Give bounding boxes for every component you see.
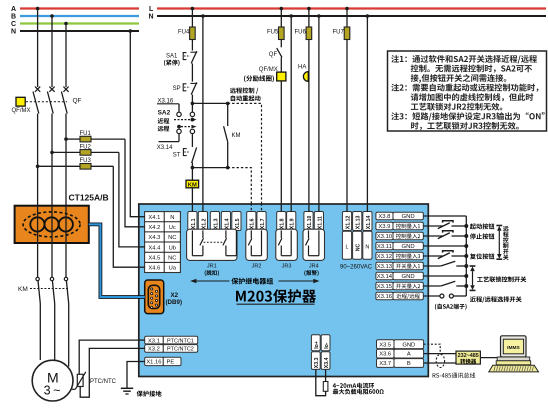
label JR1 [205, 264, 219, 276]
svg-text:NC: NC [168, 256, 176, 262]
wire X3.8 GND rail [423, 216, 466, 296]
node phase A tap [36, 7, 40, 11]
label KM [18, 286, 28, 293]
svg-text:GND: GND [402, 244, 415, 250]
label shunt coil [244, 75, 274, 82]
svg-text:A: A [407, 352, 411, 358]
svg-text:QF/MX: QF/MX [259, 67, 278, 73]
svg-text:GND: GND [402, 274, 415, 280]
svg-text:JR3: JR3 [282, 264, 292, 270]
svg-text:PTC/NTC: PTC/NTC [90, 379, 117, 385]
svg-text:232~485: 232~485 [458, 353, 479, 359]
wire SA2-ST [191, 134, 193, 147]
coil QF/MX (shunt trip) [277, 72, 286, 204]
svg-text:A: A [11, 6, 16, 13]
node L tap x281.3 [280, 7, 284, 11]
label FU7 [333, 30, 345, 36]
title M203 protector [236, 289, 316, 304]
terminal X3.16 [376, 292, 423, 300]
svg-text:KM: KM [188, 182, 197, 188]
svg-text:(DB9): (DB9) [166, 299, 183, 306]
wire X3.2 to sensor [80, 348, 145, 397]
svg-text:X1.10: X1.10 [307, 216, 313, 230]
contactor KM main contacts [36, 277, 69, 366]
terminal X1.6 [247, 212, 256, 231]
svg-text:X1.3: X1.3 [213, 218, 219, 229]
cable CT to X2 (blue) [89, 224, 145, 297]
svg-text:N: N [365, 245, 369, 251]
fuse FU3 [38, 164, 145, 268]
svg-text:KM: KM [18, 286, 28, 293]
node KM aux bottom [226, 166, 230, 170]
wire dashed KM-top to X1.7 [228, 103, 262, 204]
label from SA2 terminal [435, 304, 467, 310]
wire phase B drop [51, 16, 53, 87]
wire PE to ground [127, 362, 145, 389]
wire phase C to CT [65, 114, 67, 207]
svg-text:X3.1: X3.1 [148, 338, 160, 344]
wire dashed GND shield [424, 344, 441, 353]
relay JR3 contacts [276, 229, 298, 260]
label FU3 [80, 158, 92, 164]
label remote control switch (vertical) [503, 226, 509, 260]
svg-text:X4.6: X4.6 [148, 266, 160, 272]
terminal X3.14 [376, 272, 423, 280]
bus C (phase C, green) [20, 22, 139, 24]
label FU4 [178, 30, 190, 36]
svg-text:FU6: FU6 [295, 30, 307, 36]
svg-text:X4.1: X4.1 [148, 215, 160, 221]
svg-text:X3.10: X3.10 [377, 234, 393, 240]
label auto restart [231, 95, 261, 101]
node N tap x367.4 [366, 14, 370, 18]
label CT125A/B [69, 193, 109, 203]
svg-text:X1.4: X1.4 [224, 218, 230, 229]
bus B (phase B, blue) [20, 15, 139, 17]
pushbutton stop (to X3.10) [423, 231, 468, 239]
wire phase B to CT [51, 114, 53, 207]
label RS-485 bus [433, 373, 476, 379]
protector M203 body [139, 204, 429, 377]
svg-text:QF: QF [73, 98, 82, 105]
shunt coil box QF/MX [16, 97, 25, 106]
label HA [298, 65, 306, 71]
label KM aux [232, 133, 241, 139]
bus N (neutral, black) [20, 30, 139, 32]
terminal X1.16 PE [145, 357, 181, 365]
svg-text:X3.13: X3.13 [377, 264, 393, 270]
svg-text:X1.1: X1.1 [191, 218, 197, 229]
pushbutton ST (NO start) [183, 147, 196, 163]
svg-text:X4.5: X4.5 [148, 256, 160, 262]
svg-text:X1.5: X1.5 [235, 218, 241, 229]
svg-text:IMMS: IMMS [507, 345, 520, 351]
svg-text:X3.14: X3.14 [157, 145, 173, 151]
label JR3 [282, 264, 292, 270]
thermistor PTC/NTC [72, 372, 86, 390]
svg-text:X3.16: X3.16 [377, 294, 393, 300]
connector X2 DB9 [145, 280, 164, 314]
fuse FU7 [344, 9, 350, 205]
svg-text:X4.4: X4.4 [148, 245, 161, 251]
terminal X1.3 [210, 212, 219, 231]
dimension remote control switches [496, 226, 502, 260]
label 4-20mA loop [333, 383, 374, 389]
label FU5 [267, 30, 279, 36]
bus N2 (neutral) [157, 15, 546, 17]
wire current loop [316, 369, 326, 395]
svg-text:GND: GND [402, 214, 415, 220]
pushbutton SP (NC stop) [183, 82, 197, 94]
notes box (annotations 1-3) [388, 51, 547, 131]
terminal Io+ [311, 335, 320, 351]
wire X3.14 [157, 134, 179, 152]
svg-text:SA2: SA2 [158, 110, 171, 117]
bell HA [303, 72, 308, 82]
wire X3.14 GND [423, 274, 468, 278]
svg-text:FU7: FU7 [333, 30, 345, 36]
svg-text:JR4: JR4 [309, 264, 319, 270]
svg-text:QF: QF [269, 52, 278, 58]
terminal X3.11 [376, 242, 423, 250]
svg-text:X1.14: X1.14 [366, 216, 372, 230]
bus label A [11, 6, 16, 13]
label QF/MX [12, 108, 31, 114]
svg-text:X1.2: X1.2 [201, 218, 207, 229]
label SA2 option remote [158, 126, 170, 132]
svg-text:X3.8: X3.8 [378, 214, 391, 220]
svg-text:L: L [149, 6, 154, 13]
node FU1 tap [64, 137, 68, 141]
label protection relay group [190, 278, 319, 285]
svg-text:X3.4: X3.4 [324, 357, 330, 368]
switch interlock (to X3.13) [423, 261, 468, 268]
svg-text:GND: GND [402, 342, 415, 348]
label max load [333, 389, 384, 395]
svg-text:B: B [407, 361, 411, 367]
label SA2 option local [158, 118, 170, 124]
dimension process interlock switch [470, 266, 476, 290]
relay JR1 contacts (trip) [187, 229, 237, 260]
terminal X3.2 [145, 345, 198, 353]
label remote control [230, 88, 258, 94]
wire N to X4.1 [130, 31, 144, 217]
terminal X1.7 [257, 212, 266, 231]
svg-text:X3.2: X3.2 [148, 347, 160, 353]
fuse FU2 [52, 150, 145, 247]
node KM branch top [226, 102, 230, 106]
wire stubs into X4/X3 left terminals [138, 217, 145, 362]
label stop button [470, 233, 495, 239]
terminal X3.5 [377, 340, 424, 349]
svg-text:JR2: JR2 [252, 264, 262, 270]
svg-text:SA1: SA1 [166, 54, 178, 60]
terminal X1.9 [287, 212, 296, 231]
svg-text:N: N [170, 215, 174, 221]
selector local/remote (to X3.16) [423, 294, 466, 298]
svg-text:Ub: Ub [169, 245, 176, 251]
svg-text:NC: NC [356, 243, 362, 251]
node FU3 tap [36, 165, 40, 169]
terminal block X4.1-X4.6 [145, 212, 181, 273]
terminal X3.4 [321, 352, 330, 370]
wire N return to X1.2 [202, 16, 204, 205]
svg-text:JR1: JR1 [207, 264, 217, 270]
wire N return to X1.14 [366, 16, 368, 205]
fuse FU1 [66, 136, 145, 227]
shield loop (dashed ellipse) [436, 354, 444, 367]
svg-text:FU2: FU2 [80, 144, 92, 150]
wire ST to node [191, 162, 193, 167]
node KM coil top [191, 166, 195, 170]
svg-text:90~260VAC: 90~260VAC [340, 265, 373, 271]
label X3.16 wire [157, 98, 179, 112]
coil KM [186, 168, 199, 205]
svg-text:PTC/NTC2: PTC/NTC2 [167, 347, 194, 353]
svg-text:B: B [11, 14, 16, 21]
wire KM link dashed [30, 288, 68, 290]
svg-text:X1.12: X1.12 [345, 216, 351, 230]
wire dashed KM-bottom to X1.6 [228, 168, 252, 205]
contact KM auxiliary (NO) [224, 103, 228, 167]
svg-text:ST: ST [173, 153, 181, 159]
label start button [470, 223, 495, 229]
fuse FU6 [306, 9, 312, 205]
svg-text:HA: HA [298, 65, 306, 71]
selector SA2 contacts [177, 103, 195, 133]
wires through CT [38, 206, 66, 243]
node N tap x291.2 [289, 14, 293, 18]
terminal X1.4 [221, 212, 230, 231]
label 90-260VAC [340, 265, 373, 271]
resistor load 600ohm [323, 382, 328, 392]
label SA1 [164, 54, 180, 67]
terminal X3.9 [376, 222, 423, 230]
terminal X3.1 [145, 336, 198, 344]
terminal X3.7 [377, 359, 424, 368]
svg-text:X1.11: X1.11 [317, 216, 323, 229]
svg-text:KM: KM [232, 133, 241, 139]
svg-text:NC: NC [168, 235, 176, 241]
terminal X3.3 [311, 352, 320, 370]
label FU6 [295, 30, 307, 36]
relay JR4 contacts (alarm) [303, 229, 325, 260]
svg-text:X4.3: X4.3 [148, 235, 160, 241]
svg-text:PTC/NTC1: PTC/NTC1 [167, 338, 194, 344]
bus label L [149, 6, 154, 13]
terminal X1.11 [314, 212, 323, 231]
node L tap x308.9 [307, 7, 311, 11]
node N tap x202.9 [201, 14, 205, 18]
svg-text:X2: X2 [171, 292, 179, 299]
svg-text:Uc: Uc [169, 225, 176, 231]
terminal X3.8 [376, 212, 423, 220]
selector SA2 wiper 1 [174, 118, 197, 122]
wire phase A to CT [37, 114, 39, 207]
label SA2 [158, 110, 171, 117]
svg-text:X1.7: X1.7 [260, 218, 266, 229]
svg-text:Ua: Ua [169, 266, 177, 272]
motor M 3~ [32, 360, 73, 401]
pushbutton SA1 (NC emergency stop) [183, 51, 197, 63]
bus A (phase A, red) [20, 7, 139, 9]
svg-text:X1.13: X1.13 [356, 216, 362, 230]
bus label B [11, 14, 16, 21]
node N tap [129, 29, 133, 33]
wire B to converter [424, 362, 456, 364]
ground (protective earth) [121, 388, 133, 394]
bus label N2 [149, 14, 154, 21]
label reset button [470, 253, 494, 259]
wire X3.11 GND [423, 244, 468, 248]
label FU2 [80, 144, 92, 150]
node FU2 tap [50, 151, 54, 155]
svg-text:X1.16: X1.16 [146, 360, 161, 366]
converter 232-485 [456, 351, 480, 364]
cell NC [353, 231, 362, 259]
wire node to KM aux [192, 167, 227, 169]
label local/remote selector switch [470, 296, 522, 302]
svg-text:FU5: FU5 [267, 30, 279, 36]
terminal X3.6 [377, 349, 424, 358]
wire phase A drop [37, 9, 39, 88]
pushbutton start (to X3.9) [423, 221, 468, 229]
node control junction [191, 102, 195, 106]
fuse FU4 [190, 9, 196, 51]
wire dashed stub X1.7 [261, 204, 263, 212]
label JR2 [252, 264, 262, 270]
bus label N [11, 29, 16, 36]
svg-text:X3.6: X3.6 [379, 352, 391, 358]
svg-text:FU3: FU3 [80, 158, 92, 164]
label process interlock switch [477, 276, 526, 282]
svg-text:X4.2: X4.2 [148, 225, 160, 231]
cell L [342, 231, 351, 259]
relay JR2 contacts [246, 229, 267, 260]
svg-text:FU4: FU4 [178, 30, 190, 36]
terminal X3.12 [376, 252, 423, 260]
node L tap x192.4 [191, 7, 195, 11]
terminal X3.10 [376, 232, 423, 240]
terminal X3.15 [376, 282, 423, 290]
switch interlock 2 (to X3.15) [423, 281, 468, 288]
svg-text:CT125A/B: CT125A/B [69, 193, 109, 203]
label ground [137, 391, 162, 397]
bus label C [11, 21, 16, 28]
svg-text:X3.9: X3.9 [378, 224, 390, 230]
label PTC/NTC [90, 379, 117, 385]
node N tap x318.9 [317, 14, 321, 18]
wire A to converter [424, 353, 456, 355]
wire CT to KM poles [38, 243, 66, 277]
wire QF link dashed [26, 101, 67, 103]
terminal X1.14 [363, 212, 372, 231]
terminal X1.1 [188, 212, 197, 231]
terminal Io- [321, 335, 330, 351]
svg-text:FU1: FU1 [80, 131, 92, 137]
svg-text:L: L [345, 245, 348, 251]
terminal X1.10 [304, 212, 313, 231]
svg-text:QF/MX: QF/MX [12, 108, 31, 114]
terminal X1.2 [198, 212, 207, 231]
wire X3.1 to sensor [79, 340, 145, 374]
label ST [173, 153, 181, 159]
cell N [363, 231, 372, 259]
wire N return to X1.11 [318, 16, 320, 205]
terminal X1.8 [277, 212, 286, 231]
svg-text:X3.15: X3.15 [377, 284, 393, 290]
label QF [73, 98, 82, 105]
svg-text:X3.12: X3.12 [377, 254, 392, 260]
wire stubs into X1 terminals [192, 204, 367, 212]
terminal X1.12 [342, 212, 351, 231]
label SP [173, 86, 181, 92]
wire dashed stub X1.6 [250, 204, 252, 212]
wire SA1-SP [191, 63, 193, 81]
node phase C tap [64, 22, 68, 26]
svg-text:C: C [11, 21, 16, 28]
label FU1 [80, 131, 92, 137]
contact QF auxiliary [277, 48, 282, 72]
label JR4 [304, 264, 318, 276]
svg-text:Io-: Io- [324, 342, 330, 349]
svg-text:Io+: Io+ [314, 341, 320, 349]
label QF/MX coil [259, 67, 278, 73]
wire SP to node [191, 95, 193, 104]
svg-text:N: N [149, 14, 154, 21]
svg-text:3 ~: 3 ~ [44, 384, 61, 398]
svg-text:X3.14: X3.14 [377, 274, 393, 280]
svg-text:X3.11: X3.11 [377, 244, 392, 250]
terminal X1.5 [232, 212, 241, 231]
wire converter to PC [480, 357, 497, 359]
svg-text:SP: SP [173, 86, 181, 92]
fuse FU5 [279, 9, 285, 48]
wire junction to KM branch [192, 102, 227, 104]
svg-text:X3.7: X3.7 [379, 361, 391, 367]
current transformer CT125A/B [15, 206, 89, 243]
pushbutton reset (to X3.12) [423, 251, 468, 259]
terminal X1.13 [353, 212, 362, 231]
label X2 DB9 [166, 292, 183, 306]
svg-text:X1.6: X1.6 [250, 218, 256, 229]
node phase B tap [50, 14, 54, 18]
svg-text:X1.8: X1.8 [280, 218, 286, 229]
svg-text:N: N [11, 29, 16, 36]
bus L (line, red) [157, 7, 546, 9]
node L tap x347 [345, 7, 349, 11]
circuit breaker QF (3-pole) [33, 87, 69, 114]
wire N return to X1.9 [290, 16, 292, 205]
svg-text:X1.9: X1.9 [290, 218, 296, 229]
selector SA2 wiper 2 [177, 125, 197, 129]
svg-text:X3.5: X3.5 [379, 342, 391, 348]
wire phase C drop [65, 24, 67, 88]
label QF aux [269, 52, 278, 58]
svg-text:X3.3: X3.3 [314, 357, 320, 368]
terminal X3.13 [376, 262, 423, 270]
svg-text:PE: PE [167, 360, 175, 366]
computer IMMS [489, 336, 539, 372]
